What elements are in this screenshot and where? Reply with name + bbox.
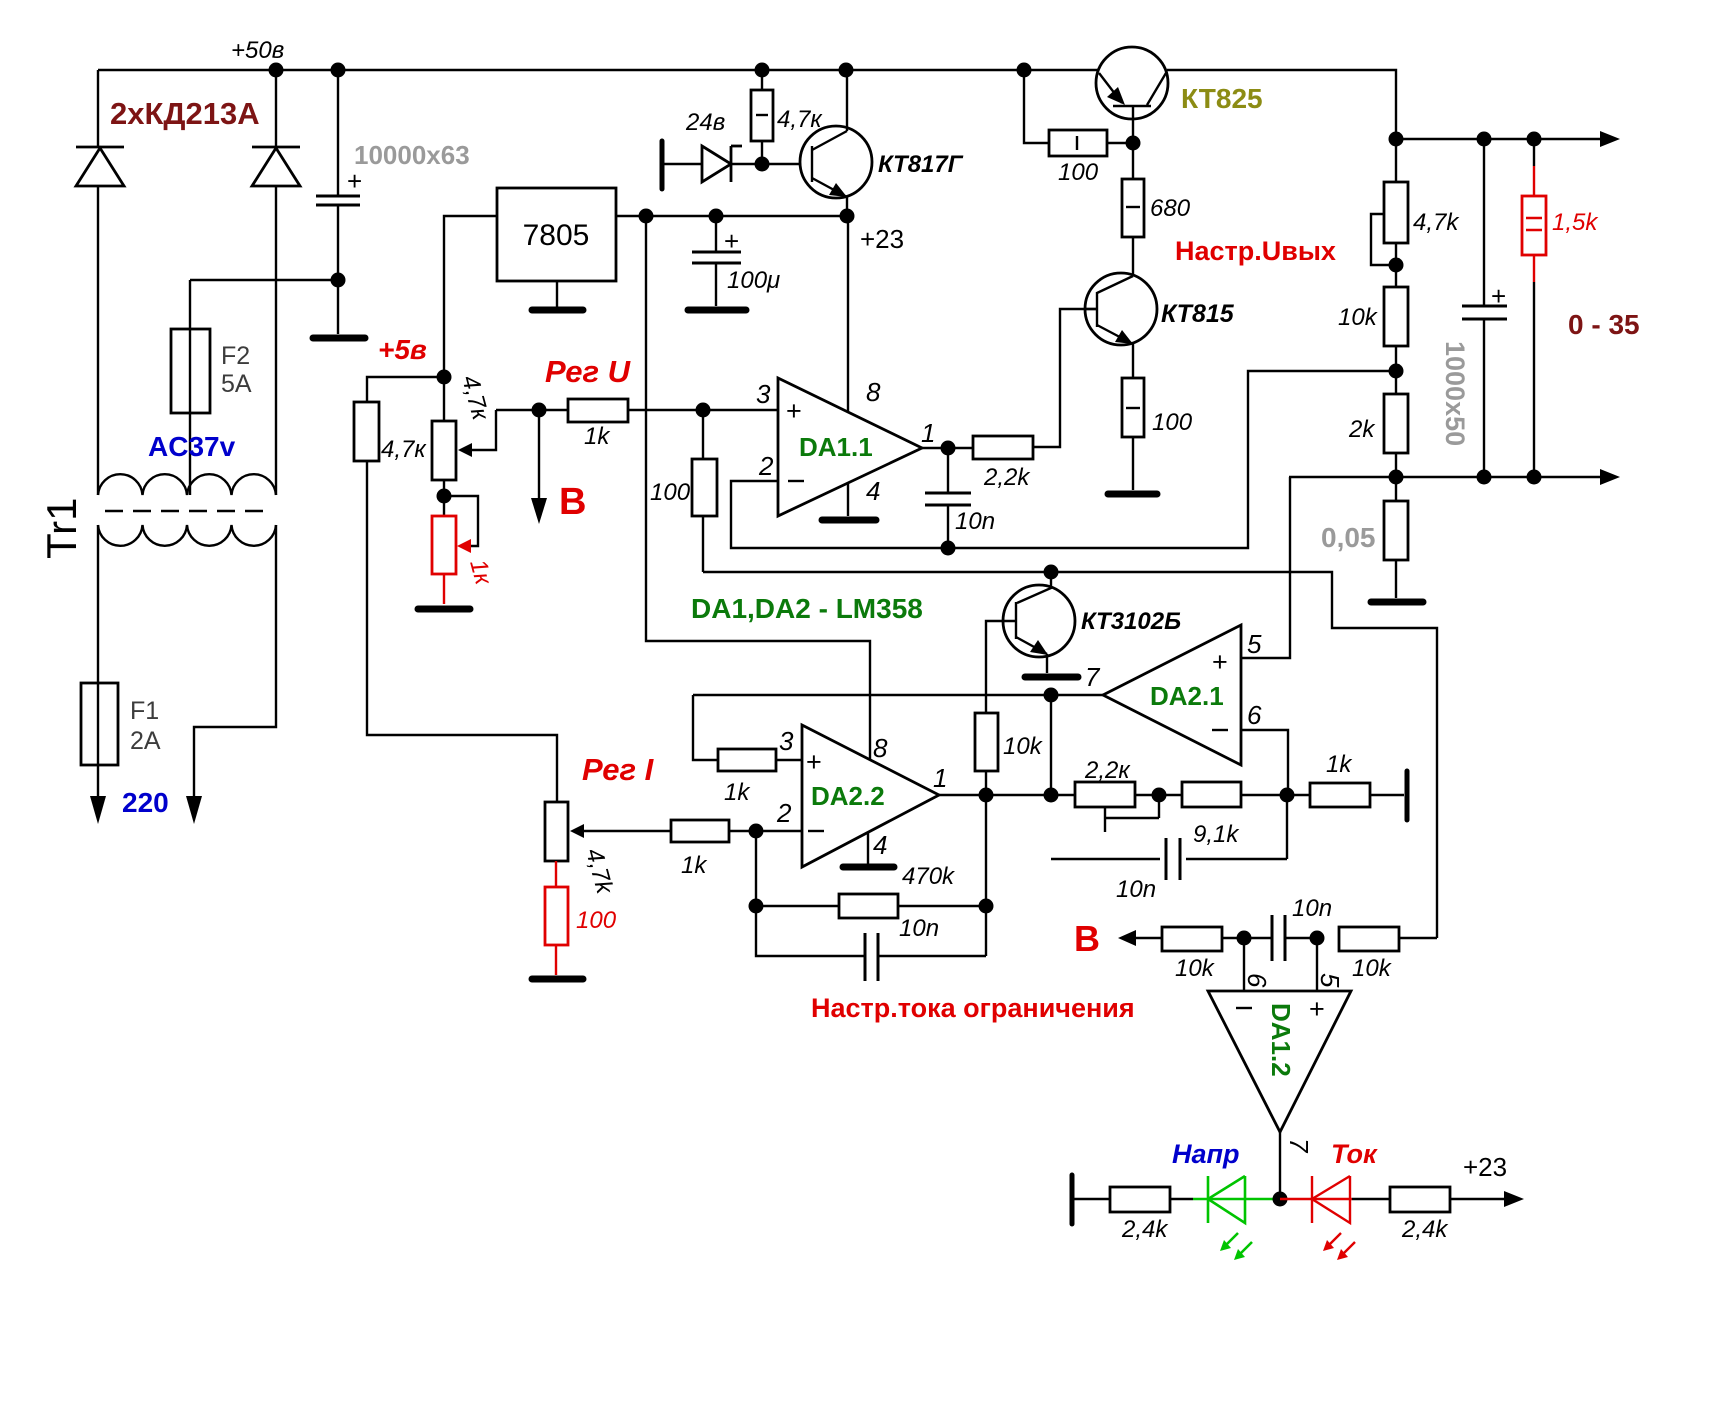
svg-text:+: + (786, 396, 802, 426)
wire 7805 input / +23 rail (616, 215, 847, 217)
op-amp DA2.2 (802, 725, 939, 867)
wire 7805 output to +5v node (444, 216, 497, 421)
fuse F1 (81, 683, 118, 765)
arrow net B left (1118, 930, 1162, 946)
svg-text:24в: 24в (685, 109, 725, 136)
capacitor 10n (DA2.1 fb) (1051, 795, 1287, 880)
node 10k/2k junction (1389, 364, 1404, 379)
svg-text:5: 5 (1247, 629, 1262, 659)
ground DA1.1 pin4 (822, 482, 876, 520)
svg-text:+23: +23 (860, 224, 904, 254)
wire pin6 down (1243, 938, 1245, 991)
potentiometer 1k red (432, 496, 478, 604)
svg-text:+50в: +50в (231, 37, 284, 64)
wire Reg I wiper to pin2 (582, 830, 802, 832)
svg-text:КТ3102Б: КТ3102Б (1081, 608, 1181, 635)
resistor 4.7k (+5v series) (354, 377, 557, 802)
svg-text:8: 8 (873, 733, 888, 763)
wire DA1.1 pin1 output (922, 447, 973, 449)
svg-text:680: 680 (1150, 195, 1191, 222)
resistor 1k (DA2.1 minus to terminal) (1310, 783, 1370, 807)
svg-text:10000x63: 10000x63 (354, 140, 470, 170)
svg-text:1k: 1k (681, 852, 708, 879)
node pin3/100 junction (696, 403, 711, 418)
svg-text:+: + (347, 166, 362, 196)
svg-text:DA2.2: DA2.2 (811, 781, 885, 811)
LED green emission arrows (1220, 1233, 1252, 1260)
node pin1 dot (941, 441, 956, 456)
resistor 100 (bus to base) (1024, 70, 1133, 156)
svg-text:+23: +23 (1463, 1152, 1507, 1182)
svg-text:В: В (1074, 918, 1100, 959)
svg-text:2,4k: 2,4k (1401, 1216, 1449, 1243)
wire DA2.1 pin5 riser (1241, 477, 1290, 658)
svg-text:1k: 1k (584, 423, 611, 450)
wire main cap bottom lead (337, 205, 339, 334)
resistor 1k (pin2) (671, 820, 729, 842)
wire Reg U line to pin3 (496, 409, 778, 411)
wire main cap top lead (337, 70, 339, 195)
svg-text:10n: 10n (1292, 895, 1332, 922)
svg-text:10n: 10n (1116, 876, 1156, 903)
ground DA2.2 pin4 (843, 833, 894, 867)
wire LED to 2.4k right (1352, 1198, 1390, 1200)
wire DA2.2 pin1 output (939, 794, 986, 796)
arrow mains left (90, 796, 106, 824)
transformer Tr1 secondary winding (98, 474, 276, 495)
capacitor 1000x50 (1462, 139, 1507, 477)
wire DA1.1 pin2 feedback (731, 371, 1396, 548)
svg-text:DA1,DA2 - LM358: DA1,DA2 - LM358 (691, 593, 923, 624)
svg-text:7: 7 (1284, 1138, 1314, 1154)
wire terminal to 2.4k (1074, 1198, 1110, 1200)
svg-text:10k: 10k (1338, 304, 1379, 331)
svg-text:2: 2 (758, 451, 774, 481)
diode VD2 (KD213A) (252, 147, 300, 186)
node KT3102 collector dot (1044, 565, 1059, 580)
transistor Q4 KT3102B (1003, 572, 1075, 673)
svg-text:4,7к: 4,7к (777, 106, 823, 133)
node zener/base junction (755, 157, 770, 172)
svg-text:Рег I: Рег I (582, 752, 655, 787)
wire DA2.1 pin6 (1241, 730, 1288, 795)
wire KT3102 base to 10k (986, 621, 1016, 713)
ground KT3102 emitter (1025, 674, 1078, 681)
terminal bar LED left (1070, 1175, 1075, 1224)
resistor 1k (pin3) (693, 695, 802, 771)
svg-text:+5в: +5в (378, 334, 427, 365)
node pin5 dot (1310, 931, 1325, 946)
node cap/centre-tap junction (331, 273, 346, 288)
svg-text:1,5k: 1,5k (1552, 209, 1599, 236)
terminal zener anode (660, 141, 665, 189)
potentiometer 4.7k Reg U (432, 410, 496, 480)
wire output to fb column (985, 795, 987, 956)
resistor 10k (divider) (1384, 287, 1408, 346)
wire diode VD1 top lead (97, 70, 99, 148)
svg-text:Tr1: Tr1 (38, 498, 85, 559)
ground capacitor C2 (688, 307, 746, 314)
node 4.7k wiper junction (1389, 258, 1404, 273)
svg-text:0,05: 0,05 (1321, 522, 1376, 553)
resistor 10k (DA2.2 output) (975, 713, 998, 795)
svg-text:8: 8 (866, 377, 881, 407)
svg-text:+: + (1491, 281, 1506, 311)
arrow net B down (531, 410, 547, 524)
svg-text:Напр: Напр (1172, 1139, 1240, 1169)
resistor 1.5k red (1522, 139, 1546, 477)
wire zener cathode to base node (731, 163, 800, 165)
capacitor C2 100u (692, 216, 741, 306)
terminal bar right (1405, 771, 1410, 820)
svg-text:9,1k: 9,1k (1193, 821, 1240, 848)
op-amp DA1.1 (778, 378, 922, 516)
resistor 2k (1384, 394, 1408, 501)
svg-text:2хКД213А: 2хКД213А (110, 96, 260, 131)
potentiometer 2.2k trimmer (1075, 782, 1159, 832)
node pin2 line dot (941, 541, 956, 556)
node pin6 dot (1237, 931, 1252, 946)
svg-text:Настр.тока ограничения: Настр.тока ограничения (811, 993, 1135, 1023)
regulator 7805 (497, 188, 616, 281)
capacitor 10n (DA2.2 fb) (756, 906, 986, 981)
ground KT815 emitter (1108, 491, 1157, 498)
wire DA2.1 pin7 output line (693, 694, 1103, 696)
svg-text:DA1.2: DA1.2 (1266, 1003, 1296, 1077)
shunt resistor 0.05 (1384, 501, 1408, 598)
ground 100 red (532, 976, 583, 983)
svg-text:F2: F2 (221, 342, 250, 370)
transformer Tr1 primary winding (98, 525, 276, 546)
wire primary right lead (194, 525, 276, 796)
wire output plus bus (1396, 131, 1620, 147)
wire pin7 junction down (1050, 695, 1052, 795)
node 470k right dot (979, 899, 994, 914)
svg-text:100: 100 (650, 479, 691, 506)
svg-text:DA1.1: DA1.1 (799, 432, 873, 462)
svg-text:100: 100 (1058, 159, 1099, 186)
svg-text:4: 4 (866, 476, 880, 506)
transistor Q3 KT815 (1085, 273, 1157, 378)
node KT825 base junction (1126, 136, 1141, 151)
svg-text:2,2k: 2,2k (983, 464, 1031, 491)
resistor 1k (Reg U to pin3) (568, 399, 628, 422)
svg-text:DA2.1: DA2.1 (1150, 681, 1224, 711)
transistor Q2 KT825 (1096, 47, 1168, 143)
resistor 4.7k (bus to zener) (751, 70, 773, 164)
node 470k left dot (749, 899, 764, 914)
resistor 100 (KT815 emitter) (1122, 378, 1144, 490)
resistor 100 (DA1.1 ref divider) (692, 410, 717, 572)
ground red pot (418, 606, 470, 613)
svg-text:4: 4 (873, 830, 887, 860)
svg-text:2: 2 (776, 798, 792, 828)
resistor 470k (756, 894, 986, 918)
svg-text:AC37v: AC37v (148, 431, 236, 462)
svg-text:100: 100 (1152, 409, 1193, 436)
resistor 10k (pin6) (1162, 927, 1272, 951)
wire centre tap to cap junction (190, 279, 338, 281)
svg-text:10k: 10k (1175, 955, 1216, 982)
svg-text:1000x50: 1000x50 (1440, 341, 1470, 446)
wire diode VD2 top lead (275, 70, 277, 148)
svg-text:10k: 10k (1003, 733, 1044, 760)
node pin7 junction (1044, 688, 1059, 703)
svg-text:6: 6 (1247, 700, 1262, 730)
node B branch dot (532, 403, 547, 418)
op-amp DA1.2 (1208, 991, 1351, 1132)
capacitor 10n (DA1.1) (925, 448, 971, 548)
node +5v (437, 370, 452, 385)
node pin2 dot (749, 824, 764, 839)
wire DA1.2 pin7 (1279, 1132, 1281, 1199)
wire primary left lead (97, 525, 99, 796)
resistor 10k (pin5) (1339, 927, 1437, 951)
svg-text:3: 3 (756, 379, 771, 409)
svg-text:Настр.Uвых: Настр.Uвых (1175, 236, 1336, 266)
wire +50v top bus (98, 70, 1396, 139)
LED red emission arrows (1323, 1233, 1355, 1260)
svg-text:4,7к: 4,7к (381, 436, 427, 463)
wire +23 to DA2.2 pin8 (646, 216, 870, 760)
label F1 2A (130, 697, 161, 755)
svg-text:0 - 35: 0 - 35 (1568, 309, 1640, 340)
wire centre tap vertical (189, 280, 191, 495)
wire sense line from 100 bottom (703, 572, 1437, 938)
resistor 2.4k right (1390, 1187, 1524, 1212)
svg-text:10k: 10k (1352, 955, 1393, 982)
wire KT815 base from 2.2k (1033, 309, 1097, 447)
svg-text:Рег U: Рег U (545, 354, 632, 389)
LED green Napr (1193, 1176, 1280, 1223)
wire diode VD1 bottom lead to winding (97, 186, 99, 495)
svg-text:1k: 1k (724, 779, 751, 806)
svg-text:470k: 470k (902, 863, 956, 890)
svg-text:4,7k: 4,7k (1413, 209, 1460, 236)
wire 10k-2k junction (1395, 346, 1397, 394)
wire pin2 to 470k (755, 831, 757, 906)
svg-text:2,4k: 2,4k (1121, 1216, 1169, 1243)
node LED junction (1273, 1192, 1288, 1207)
zener diode 24v (702, 146, 742, 182)
node plus bus dots (1389, 132, 1542, 147)
resistor 9.1k (1182, 782, 1241, 807)
transformer Tr1 core (105, 510, 273, 512)
ground 7805 (532, 281, 583, 310)
svg-text:7805: 7805 (523, 219, 590, 252)
svg-text:КТ817Г: КТ817Г (878, 151, 964, 178)
svg-text:F1: F1 (130, 697, 159, 725)
svg-text:220: 220 (122, 787, 169, 818)
LED red Tok (1280, 1176, 1352, 1223)
svg-text:7: 7 (1085, 662, 1101, 692)
wire DA1.1 pin8 to +23 (847, 216, 849, 412)
wire pot to red pot (443, 480, 445, 516)
wire zener anode (664, 163, 702, 165)
fuse F2 (171, 329, 210, 413)
node bus junction dots (269, 63, 1032, 78)
svg-text:5A: 5A (221, 370, 252, 398)
capacitor 10n (DA1.2) (1272, 915, 1317, 961)
svg-text:2,2к: 2,2к (1084, 757, 1131, 784)
resistor 100 red (545, 861, 568, 975)
resistor 2.4k left (1110, 1187, 1193, 1212)
wire diode VD2 bottom lead to winding (275, 186, 277, 495)
potentiometer 4.7k Reg I (545, 802, 584, 861)
svg-text:6: 6 (1242, 973, 1272, 988)
diode VD1 (KD213A) (76, 147, 124, 186)
svg-text:10n: 10n (955, 508, 995, 535)
svg-text:100μ: 100μ (727, 267, 780, 294)
wire DA2.2 out row (986, 794, 1404, 796)
svg-text:5: 5 (1315, 973, 1345, 988)
svg-text:2A: 2A (130, 727, 161, 755)
transistor Q1 KT817G (800, 70, 872, 216)
op-amp DA2.1 (1103, 625, 1241, 765)
resistor 680 (1122, 143, 1144, 276)
svg-text:1: 1 (921, 418, 935, 448)
svg-text:100: 100 (576, 907, 617, 934)
arrow mains right (186, 796, 202, 824)
svg-text:1k: 1k (1326, 751, 1353, 778)
svg-text:3: 3 (779, 726, 794, 756)
ground shunt (1371, 599, 1423, 606)
node row dots (979, 788, 1295, 803)
svg-text:В: В (559, 481, 586, 523)
resistor 2.2k (pin1 to KT815) (973, 436, 1033, 459)
potentiometer 4.7k (Nastr.Uvyh) (1371, 139, 1408, 287)
wire pin5 down (1316, 938, 1318, 991)
svg-text:+: + (724, 226, 739, 256)
node +23 rail dots (639, 209, 855, 224)
capacitor C1 10000x63 (316, 166, 362, 205)
node red pot top (437, 489, 452, 504)
label F2 5A (221, 342, 252, 398)
svg-text:1: 1 (933, 763, 947, 793)
wire output minus bus (1289, 469, 1620, 485)
ground main cap (313, 335, 365, 342)
svg-text:+: + (806, 747, 822, 777)
svg-text:+: + (1309, 994, 1325, 1024)
node minus bus dots (1389, 470, 1542, 485)
svg-text:Ток: Ток (1331, 1139, 1378, 1169)
svg-text:+: + (1212, 647, 1228, 677)
svg-text:КТ815: КТ815 (1161, 300, 1235, 328)
svg-text:2k: 2k (1348, 416, 1376, 443)
svg-text:КТ825: КТ825 (1181, 83, 1263, 114)
svg-text:10n: 10n (899, 915, 939, 942)
